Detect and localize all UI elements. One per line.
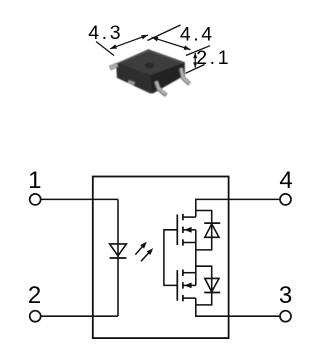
- body diode D2 (cathode up): [204, 223, 220, 237]
- package lead front gull-wing A: [156, 81, 166, 95]
- package lead front-left tab: [128, 80, 136, 85]
- light emission arrow upper: [135, 242, 146, 255]
- pin 2 terminal circle: [30, 311, 41, 322]
- svg-text:3: 3: [279, 282, 292, 309]
- package outline box: [93, 177, 229, 339]
- wire pin1 to LED anode: [41, 198, 118, 200]
- svg-text:4.4: 4.4: [180, 23, 215, 45]
- MOSFET Q1 (top output FET): [177, 214, 196, 246]
- wire pin3 to Q2 drain: [196, 298, 279, 316]
- dimension extension tick left: [96, 42, 114, 56]
- wire pin4 to Q1 drain: [196, 199, 279, 217]
- svg-text:2.1: 2.1: [196, 47, 231, 69]
- MOSFET Q2 (bottom output FET): [177, 270, 196, 302]
- package body (SOP4 molded case, isometric view): [116, 49, 185, 93]
- svg-text:1: 1: [28, 167, 41, 194]
- wire pin2 to LED cathode: [41, 315, 118, 317]
- wire Q1 source / common source bus: [195, 230, 197, 286]
- LED D1 (emitter diode): [110, 244, 127, 258]
- wire LED branch vertical: [117, 199, 119, 316]
- dimension line 4.3 with arrowheads: [110, 35, 148, 49]
- dimension extension tick middle: [148, 25, 181, 41]
- svg-text:4.3: 4.3: [88, 22, 123, 44]
- package lead left (pin): [109, 63, 118, 70]
- gate bus wire (both MOSFET gates): [164, 230, 177, 286]
- dimension extension tick bottom: [186, 65, 205, 74]
- svg-text:2: 2: [28, 282, 41, 309]
- wire body diode D2 branch (top): [196, 211, 212, 250]
- pin 1 terminal circle: [30, 194, 41, 205]
- pin 3 terminal circle: [280, 311, 291, 322]
- pin 4 terminal circle: [280, 194, 291, 205]
- light emission arrow lower: [141, 248, 153, 261]
- dimension line 4.4 with arrowheads: [152, 37, 191, 50]
- dimension extension tick right: [186, 46, 210, 56]
- package lead front gull-wing B: [181, 68, 190, 84]
- dimension line 2.1 vertical double arrow: [193, 53, 197, 68]
- svg-text:4: 4: [279, 167, 292, 194]
- body diode D3 (cathode down): [204, 278, 220, 292]
- wire body diode D3 branch (bottom): [196, 266, 212, 305]
